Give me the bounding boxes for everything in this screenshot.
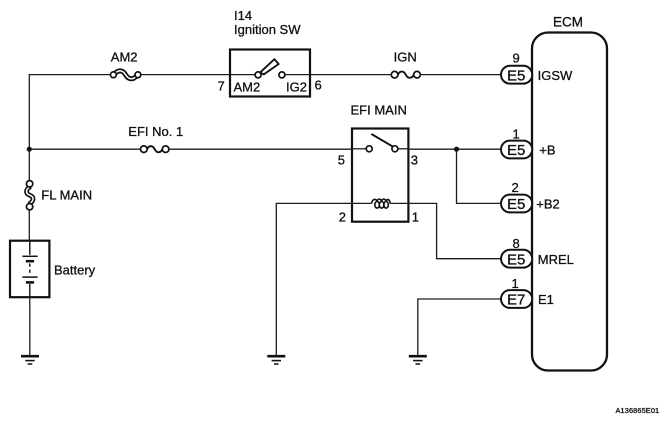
wire: battery negative to ground xyxy=(29,297,31,355)
svg-text:E5: E5 xyxy=(507,196,525,213)
battery xyxy=(10,241,96,298)
ground: battery xyxy=(21,356,39,364)
node: junction battery feed / EFI No.1 xyxy=(27,147,32,152)
svg-text:5: 5 xyxy=(338,153,345,168)
svg-text:AM2: AM2 xyxy=(234,80,261,95)
ECM xyxy=(532,15,607,371)
wire: battery feed left vertical xyxy=(28,75,30,241)
svg-text:9: 9 xyxy=(513,50,520,65)
wire: ignition switch pin 6 to IGN fuse xyxy=(310,74,391,76)
svg-text:E7: E7 xyxy=(507,292,525,309)
node: +B junction xyxy=(454,147,459,152)
wire: +B junction to ECM +B2 xyxy=(457,149,502,203)
svg-text:Battery: Battery xyxy=(54,263,96,278)
label: drawing number A136865E01 xyxy=(616,406,660,415)
svg-text:A136865E01: A136865E01 xyxy=(616,406,660,415)
fuse IGN xyxy=(391,50,420,78)
connector E5 pin 2 +B2 xyxy=(501,180,560,213)
svg-text:E1: E1 xyxy=(538,292,554,307)
svg-text:6: 6 xyxy=(315,78,322,93)
connector E5 pin 8 MREL xyxy=(501,236,574,268)
svg-text:+B2: +B2 xyxy=(536,197,560,212)
svg-text:I14: I14 xyxy=(234,8,252,23)
wire: EFI No.1 fuse to relay pin 5 xyxy=(169,148,352,150)
connector E5 pin 9 IGSW xyxy=(501,50,573,84)
svg-text:IG2: IG2 xyxy=(286,80,307,95)
svg-text:MREL: MREL xyxy=(538,252,574,267)
wire: IGN fuse to ECM IGSW terminal xyxy=(420,74,501,76)
svg-text:E5: E5 xyxy=(507,67,525,84)
svg-text:IGN: IGN xyxy=(394,50,417,65)
svg-text:FL MAIN: FL MAIN xyxy=(41,188,92,203)
fusible link FL MAIN xyxy=(26,181,92,210)
connector E7 pin 1 E1 xyxy=(501,276,554,308)
svg-text:1: 1 xyxy=(513,127,520,142)
svg-text:3: 3 xyxy=(411,153,418,168)
svg-text:E5: E5 xyxy=(507,251,525,268)
wire: ECM E1 to ground xyxy=(418,299,501,356)
svg-text:EFI No. 1: EFI No. 1 xyxy=(128,124,183,139)
switch I14 Ignition SW xyxy=(218,8,322,97)
svg-text:7: 7 xyxy=(218,79,225,94)
svg-text:2: 2 xyxy=(339,210,346,225)
svg-text:EFI MAIN: EFI MAIN xyxy=(351,102,407,117)
ground: relay coil xyxy=(267,356,285,364)
wire: junction to EFI No.1 fuse xyxy=(29,148,140,150)
svg-text:2: 2 xyxy=(512,180,519,195)
wire: relay pin 3 to ECM +B xyxy=(408,148,501,150)
svg-text:1: 1 xyxy=(512,276,519,291)
wire: AM2 fuse to ignition switch pin 7 xyxy=(141,74,230,76)
wire: top horizontal battery to AM2 fuse xyxy=(29,74,111,76)
svg-text:8: 8 xyxy=(513,236,520,251)
wire: relay pin 1 to ECM MREL xyxy=(408,203,501,258)
svg-text:Ignition SW: Ignition SW xyxy=(234,22,301,37)
svg-text:ECM: ECM xyxy=(553,15,583,30)
connector E5 pin 1 +B xyxy=(501,127,556,160)
fuse AM2 xyxy=(111,50,141,79)
fuse EFI No. 1 xyxy=(128,124,183,153)
svg-text:IGSW: IGSW xyxy=(538,68,573,83)
wire: relay pin 2 to ground xyxy=(276,203,352,355)
svg-text:AM2: AM2 xyxy=(111,50,138,65)
svg-text:+B: +B xyxy=(539,143,555,158)
ground: E1 xyxy=(409,356,427,364)
svg-text:E5: E5 xyxy=(507,142,525,159)
relay EFI MAIN xyxy=(338,102,419,224)
svg-text:1: 1 xyxy=(412,210,419,225)
